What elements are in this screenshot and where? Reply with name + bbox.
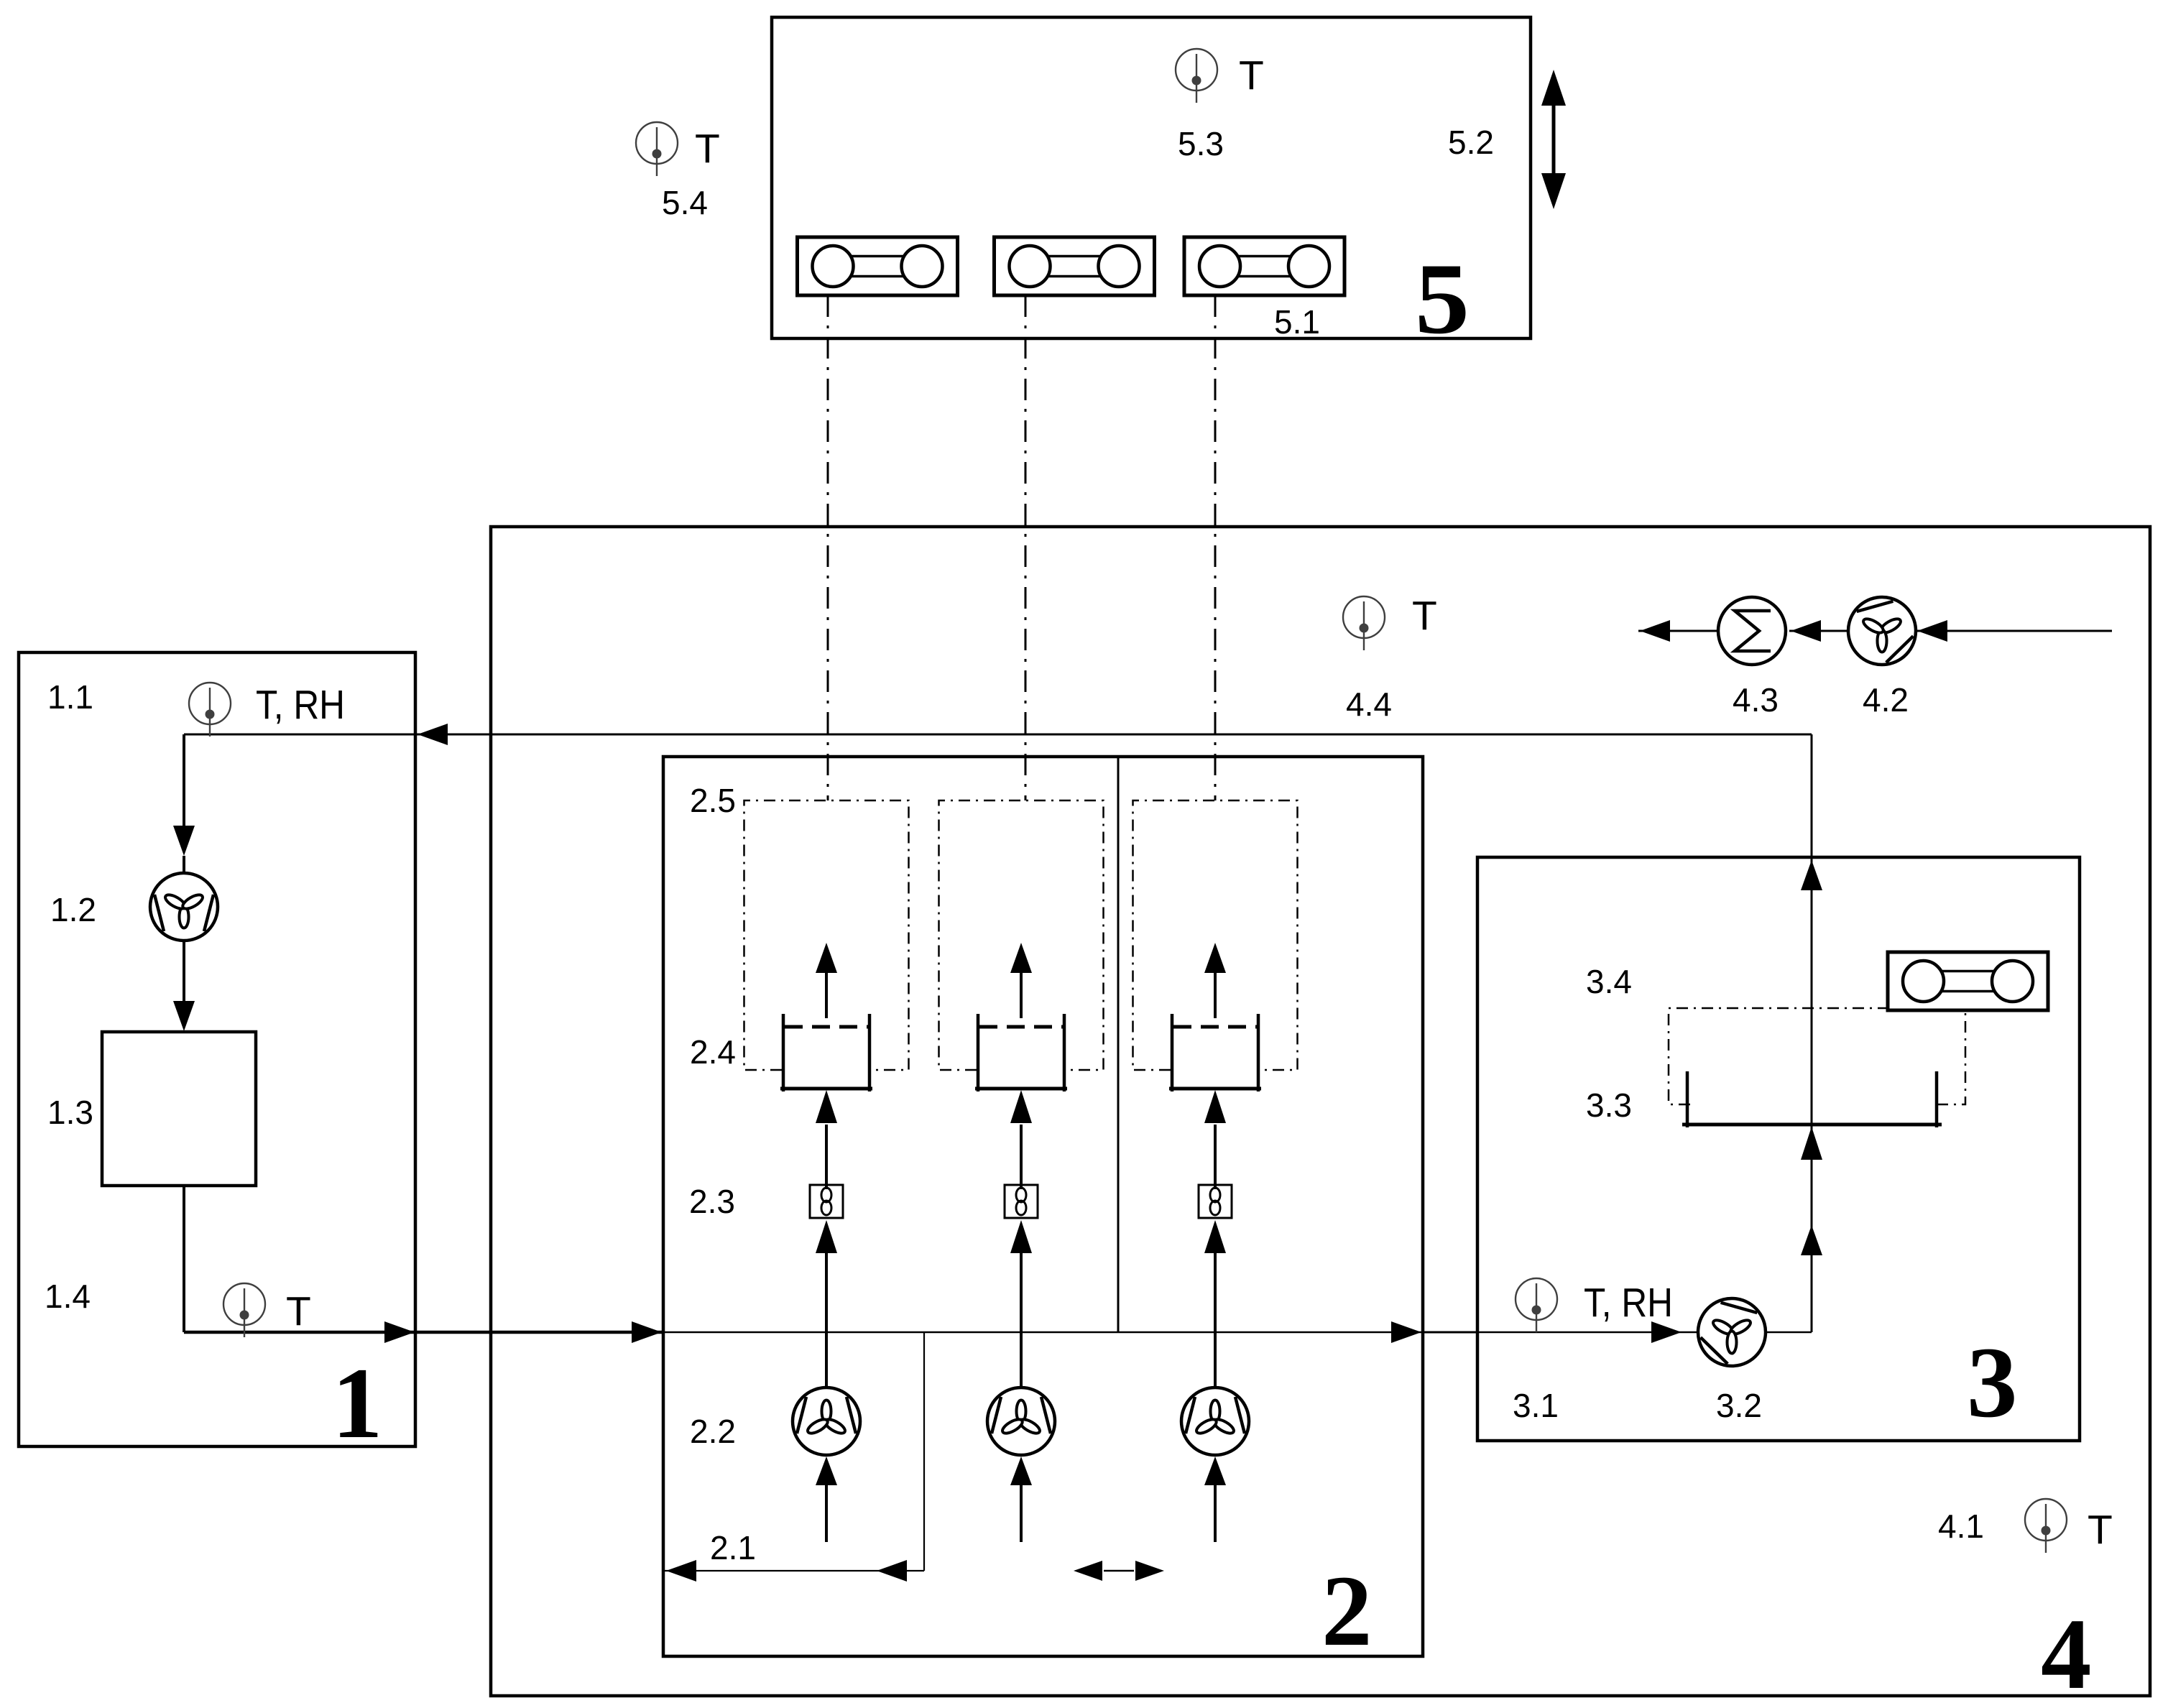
svg-text:5.2: 5.2 — [1448, 124, 1494, 161]
svg-text:T: T — [1412, 593, 1437, 639]
ultrasonic nozzle 2.3 chain 2 — [1005, 1185, 1038, 1218]
sensor 1.1 — [189, 683, 231, 737]
svg-text:4.3: 4.3 — [1733, 681, 1779, 719]
evaporation cup 2.4 chain 2 — [975, 1014, 1067, 1091]
svg-text:T: T — [1239, 52, 1264, 98]
evaporation cup 2.4 chain 3 — [1169, 1014, 1261, 1091]
svg-text:T: T — [2088, 1507, 2113, 1553]
fan 2.2 chain 2 — [987, 1388, 1055, 1455]
tape cassette 5.1 middle — [995, 237, 1155, 295]
dash-dot drop wire from cassette 3 — [1214, 295, 1217, 800]
tape cassette 5.1 left — [798, 237, 958, 295]
svg-text:3.3: 3.3 — [1586, 1086, 1632, 1124]
wire fan to nozzle chain 3 — [1214, 1250, 1217, 1388]
wire fan to nozzle chain 1 — [825, 1250, 828, 1388]
sensor 4.4 — [1343, 596, 1385, 650]
conditioning unit box 1 — [19, 652, 415, 1446]
wire down from junction to fan 1.2 — [183, 734, 185, 830]
sensor 3.1 — [1516, 1278, 1557, 1332]
svg-text:2.2: 2.2 — [690, 1413, 736, 1450]
vertical motion double arrow 5.2 — [1552, 97, 1556, 182]
exhaust wire out — [1638, 630, 1719, 632]
svg-text:3: 3 — [1967, 1326, 2018, 1439]
inlet air arrow chain 1 — [825, 1482, 828, 1542]
fan 2.2 chain 1 — [793, 1388, 860, 1455]
inlet wire to fan 4.2 — [1916, 630, 2112, 632]
svg-text:1.2: 1.2 — [50, 891, 96, 928]
return air wire (top horizontal) — [184, 734, 1812, 736]
wire nozzle to cup chain 3 — [1214, 1125, 1217, 1189]
svg-text:3.2: 3.2 — [1716, 1387, 1762, 1424]
inlet air arrow chain 3 — [1214, 1482, 1217, 1542]
sensor 5.4 — [636, 122, 678, 176]
svg-text:T: T — [695, 126, 720, 172]
svg-text:4.2: 4.2 — [1863, 681, 1909, 719]
sensor 4.1 — [2025, 1499, 2067, 1553]
sensor 1.4 — [223, 1283, 265, 1337]
svg-text:1.3: 1.3 — [47, 1094, 93, 1131]
duct wire inside box 3 to fan 3.2 — [1477, 1331, 1697, 1334]
mist arrow chain 3 — [1214, 971, 1217, 1018]
svg-text:T, RH: T, RH — [256, 682, 345, 728]
wire dryer 1.3 down and to outlet — [183, 1186, 185, 1332]
spray zone dash-dot rect 3.3 — [1669, 1008, 1965, 1104]
tape cassette 5.1 right — [1184, 237, 1344, 295]
svg-text:4.4: 4.4 — [1346, 685, 1392, 723]
svg-text:4.1: 4.1 — [1938, 1508, 1984, 1545]
ultrasonic nozzle 2.3 chain 1 — [810, 1185, 843, 1218]
main duct wire inside box 2 — [663, 1331, 1423, 1334]
slide double arrow bottom middle — [1104, 1570, 1134, 1572]
inlet air arrow chain 2 — [1020, 1482, 1023, 1542]
sensor 5.3 — [1176, 49, 1217, 103]
fan 4.2 — [1836, 585, 1928, 677]
damper travel wire 2.1 — [663, 1570, 924, 1571]
steam zone dash-dot rect 2.5 chain 2 — [939, 800, 1104, 1070]
ultrasonic nozzle 2.3 chain 3 — [1199, 1185, 1232, 1218]
svg-text:2.4: 2.4 — [690, 1033, 736, 1071]
evaporation cup 2.4 chain 1 — [780, 1014, 872, 1091]
wire nozzle to cup chain 2 — [1020, 1125, 1023, 1189]
svg-text:5: 5 — [1415, 243, 1470, 355]
supply arrowhead into box 2 — [632, 1321, 662, 1343]
humidifier unit box 2 — [663, 757, 1423, 1656]
svg-text:3.1: 3.1 — [1513, 1387, 1559, 1424]
wire nozzle to cup chain 1 — [825, 1125, 828, 1189]
svg-text:4: 4 — [2041, 1598, 2092, 1708]
svg-text:2.1: 2.1 — [710, 1529, 756, 1566]
svg-text:T: T — [286, 1288, 311, 1334]
svg-text:5.3: 5.3 — [1178, 125, 1224, 162]
bypass riser wire in box 2 — [923, 1332, 925, 1571]
box 2 internal divider wire — [1117, 757, 1120, 1332]
water tray 3.3 — [1682, 1071, 1942, 1127]
svg-text:3.4: 3.4 — [1586, 963, 1632, 1000]
arrowhead at box 2 exit — [1391, 1321, 1421, 1343]
supply arrowhead at box 1 edge — [384, 1321, 415, 1343]
svg-text:1.4: 1.4 — [45, 1278, 91, 1315]
riser arrowheads — [1801, 1225, 1822, 1255]
wire fan to nozzle chain 2 — [1020, 1250, 1023, 1388]
mist arrow chain 1 — [825, 971, 828, 1018]
return air arrowhead into box 1 — [418, 724, 448, 745]
svg-text:5.4: 5.4 — [662, 184, 708, 221]
duct wire box2 to box3 — [1423, 1331, 1477, 1334]
steam zone dash-dot rect 2.5 chain 1 — [744, 800, 909, 1070]
fan 2.2 chain 3 — [1181, 1388, 1249, 1455]
heat exchanger 4.3 — [1718, 597, 1786, 665]
tape cassette 3.4 — [1888, 952, 2048, 1010]
svg-text:2.5: 2.5 — [690, 782, 736, 819]
fan 3.2 — [1686, 1286, 1778, 1378]
dash-dot drop wire from cassette 2 — [1025, 295, 1027, 800]
svg-text:2.3: 2.3 — [689, 1183, 735, 1220]
wire riser from box 3 to return — [1811, 734, 1813, 1332]
steam zone dash-dot rect 2.5 chain 3 — [1133, 800, 1298, 1070]
adsorption dryer 1.3 — [102, 1032, 256, 1186]
svg-text:5.1: 5.1 — [1274, 303, 1320, 341]
wire fan 1.2 to dryer 1.3 — [183, 941, 185, 1004]
measuring unit box 3 — [1477, 857, 2080, 1441]
outer chamber box 4 — [491, 527, 2150, 1696]
wire fan 3.2 to riser — [1766, 1331, 1812, 1334]
dash-dot drop wire from cassette 1 — [827, 295, 829, 800]
svg-text:1: 1 — [332, 1347, 383, 1459]
mist arrow chain 2 — [1020, 971, 1023, 1018]
svg-text:T, RH: T, RH — [1584, 1280, 1673, 1326]
svg-text:1.1: 1.1 — [47, 678, 93, 716]
climate chamber box 5 — [772, 17, 1531, 338]
svg-text:2: 2 — [1321, 1555, 1373, 1667]
wire fan 4.2 to HX 4.3 — [1789, 630, 1849, 632]
fan 1.2 — [150, 873, 218, 941]
